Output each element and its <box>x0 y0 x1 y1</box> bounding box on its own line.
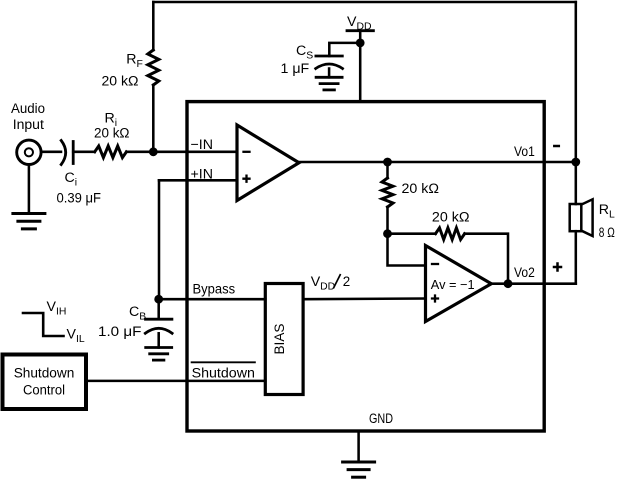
svg-text:RF: RF <box>126 51 143 70</box>
label speaker minus <box>554 145 559 148</box>
svg-text:RL: RL <box>599 202 615 221</box>
node Vo2 junction <box>504 279 513 288</box>
wire RF lower lead <box>152 85 155 152</box>
svg-text:1.0 μF: 1.0 μF <box>98 324 142 340</box>
svg-text:20 kΩ: 20 kΩ <box>432 209 470 225</box>
node Vo1 internal junction <box>383 158 392 167</box>
svg-text:Audio: Audio <box>11 101 45 117</box>
wire Ri to -IN <box>126 151 237 154</box>
wire right feedback vertical down to Vo1 node <box>575 2 578 162</box>
svg-text:Vo2: Vo2 <box>514 265 535 281</box>
resistor RF <box>148 50 159 85</box>
wire speaker to Vo2 corner <box>575 231 578 284</box>
label Shutdown overline <box>192 361 255 363</box>
node Vo1 external junction <box>571 158 580 167</box>
svg-text:−IN: −IN <box>191 137 213 153</box>
capacitor CB top plate <box>146 318 172 321</box>
wire Ci to Ri <box>73 151 95 154</box>
svg-text:VDD: VDD <box>347 14 371 33</box>
wire middle node down to U2 minus input <box>388 234 426 266</box>
wire VDD/2 from BIAS to U2 plus <box>303 297 425 300</box>
wire connector to Ci <box>42 151 62 154</box>
wire middle node to 20k horizontal <box>388 232 436 235</box>
wire +IN horizontal <box>159 179 237 182</box>
capacitor CS top plate <box>316 55 342 58</box>
svg-text:20 kΩ: 20 kΩ <box>102 74 139 90</box>
BIAS block <box>265 284 303 395</box>
resistor 20k horizontal <box>436 228 465 240</box>
speaker RL driver rectangle <box>570 204 582 231</box>
svg-text:20 kΩ: 20 kΩ <box>402 181 440 197</box>
svg-text:8 Ω: 8 Ω <box>599 225 615 241</box>
wire CS lower stem <box>328 69 331 78</box>
svg-text:2: 2 <box>343 274 350 289</box>
wire CB lower stem <box>157 333 160 347</box>
svg-text:GND: GND <box>369 411 393 427</box>
label speaker plus <box>554 264 561 271</box>
capacitor CS curved plate <box>316 64 343 69</box>
wire connector ground stem <box>28 165 31 214</box>
audio input connector inner circle <box>25 148 33 156</box>
label VDD/2 slash <box>334 275 340 288</box>
resistor 20k vertical <box>382 178 393 207</box>
ground for CS <box>316 76 342 79</box>
capacitor CB curved plate <box>145 328 172 333</box>
shutdown control box <box>3 355 87 410</box>
shutdown control waveform VIH VIL <box>23 313 64 336</box>
wire U2 output Vo2 line <box>491 282 576 285</box>
capacitor Ci curved plate <box>61 141 65 165</box>
svg-text:CB: CB <box>129 304 146 323</box>
wire 20k vertical upper lead <box>386 162 389 178</box>
node input junction <box>149 147 158 156</box>
IC boundary box <box>187 102 544 431</box>
speaker RL cone <box>581 199 592 236</box>
wire CB stem <box>157 299 160 319</box>
wire Shutdown from control box to BIAS <box>88 380 265 383</box>
op-amp U2 <box>426 246 492 322</box>
svg-text:Input: Input <box>13 117 44 133</box>
op-amp U1 plus sign <box>244 176 250 182</box>
svg-text:Vo1: Vo1 <box>514 144 535 160</box>
wire Bypass to BIAS <box>159 298 266 301</box>
wire +IN down to bypass node <box>158 180 161 299</box>
svg-text:20 kΩ: 20 kΩ <box>94 125 130 141</box>
svg-text:1 μF: 1 μF <box>281 61 310 77</box>
ground for IC GND <box>343 461 375 464</box>
wire U1 output Vo1 line <box>299 161 576 164</box>
svg-text:Bypass: Bypass <box>193 281 236 297</box>
wire RF upper lead <box>152 2 155 50</box>
svg-text:VDD: VDD <box>311 274 335 293</box>
capacitor Ci straight plate <box>72 142 75 164</box>
svg-text:VIH: VIH <box>47 299 67 318</box>
svg-text:Ci: Ci <box>65 170 78 189</box>
svg-text:Control: Control <box>23 383 65 399</box>
VDD supply bar <box>347 29 373 32</box>
op-amp U1 <box>237 125 299 201</box>
wire GND stem <box>357 431 360 462</box>
op-amp U2 minus sign <box>432 263 438 265</box>
svg-text:Shutdown: Shutdown <box>192 366 255 382</box>
ground for audio input <box>13 212 45 215</box>
op-amp U1 minus sign <box>244 151 250 153</box>
wire Vo1 node down to speaker <box>575 162 578 204</box>
svg-text:CS: CS <box>296 43 313 62</box>
node Bypass junction <box>154 295 163 304</box>
resistor Ri <box>95 146 127 158</box>
ground for CB <box>146 346 172 349</box>
wire 20k vertical lower lead <box>386 207 389 234</box>
svg-text:Shutdown: Shutdown <box>14 366 75 382</box>
wire 20k horizontal to feedback corner <box>465 234 508 284</box>
audio input connector outer circle <box>17 140 41 164</box>
op-amp U2 plus sign <box>432 296 438 302</box>
wire VDD stem into IC <box>359 31 362 101</box>
node middle junction <box>383 229 392 238</box>
wire top feedback horizontal <box>153 1 576 4</box>
svg-text:VIL: VIL <box>67 327 85 346</box>
wire CS branch <box>329 43 360 56</box>
svg-text:BIAS: BIAS <box>272 324 288 355</box>
svg-text:Av = −1: Av = −1 <box>431 277 475 292</box>
node VDD junction <box>356 39 365 48</box>
svg-text:0.39 μF: 0.39 μF <box>57 190 102 206</box>
